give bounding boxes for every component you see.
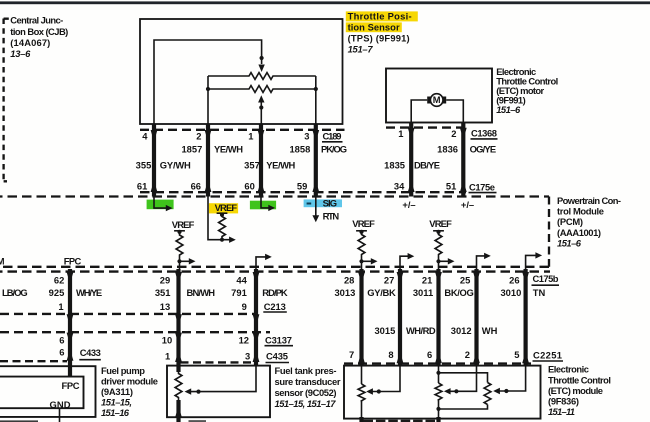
svg-text:44: 44 <box>236 274 247 285</box>
TPS resistor element lower <box>208 86 316 93</box>
wire 791 RD/PK 44 to sensor <box>254 269 258 366</box>
svg-text:Throttle Posi-: Throttle Posi- <box>348 10 412 21</box>
svg-text:Electronic: Electronic <box>548 364 589 375</box>
node pin 21 branch <box>436 259 440 263</box>
svg-text:4: 4 <box>142 130 148 141</box>
svg-text:(TPS) (9F991): (TPS) (9F991) <box>348 33 410 44</box>
svg-text:66: 66 <box>191 181 201 192</box>
svg-text:1: 1 <box>58 301 63 312</box>
wire motor lead right <box>446 100 463 123</box>
wire 3011 WH/RD 21 to pin6 <box>436 269 440 366</box>
highlight yellow TPS label line1 <box>346 11 418 21</box>
svg-text:1835: 1835 <box>384 159 405 170</box>
svg-text:(9F836): (9F836) <box>548 396 579 407</box>
svg-text:Powertrain Con-: Powertrain Con- <box>557 195 621 206</box>
PCM boundary top dashed <box>0 195 549 197</box>
ETC pot1 feed from pin 7 <box>361 366 363 384</box>
PCM module label <box>557 195 621 249</box>
ETC motor label <box>496 66 558 115</box>
TPS sensor box <box>140 19 343 124</box>
node resistor right <box>314 87 318 91</box>
svg-text:60: 60 <box>244 181 254 192</box>
svg-text:1: 1 <box>165 350 170 361</box>
svg-text:RTN: RTN <box>323 210 340 221</box>
svg-text:2: 2 <box>196 130 201 141</box>
svg-text:VREF: VREF <box>429 218 452 229</box>
svg-text:M: M <box>433 94 441 105</box>
wire 1835 DB/YE motor1 to 34 <box>409 123 413 197</box>
wire 44 internal arrow <box>256 257 267 269</box>
node TPS wiper junction <box>260 56 264 60</box>
connector C435 dashed line <box>181 361 258 363</box>
ETC module label <box>548 364 611 418</box>
ETC pin6 node <box>438 366 440 383</box>
svg-text:GY/WH: GY/WH <box>160 159 191 170</box>
connector pin flares C175e <box>151 187 467 192</box>
connector C189 dashed line <box>140 129 345 131</box>
connector C3137 dashed line <box>0 331 270 333</box>
svg-text:C189: C189 <box>323 131 342 142</box>
TPS label <box>348 10 412 54</box>
svg-text:61: 61 <box>137 181 147 192</box>
svg-text:tion Box (CJB): tion Box (CJB) <box>10 26 68 37</box>
svg-text:9: 9 <box>242 301 247 312</box>
svg-text:+/–: +/– <box>402 199 415 210</box>
svg-text:151–6: 151–6 <box>496 104 521 115</box>
svg-text:Throttle Control: Throttle Control <box>548 374 611 385</box>
node pin 29 branch <box>177 259 181 263</box>
svg-text:6: 6 <box>59 347 64 358</box>
svg-text:3010: 3010 <box>500 287 521 298</box>
svg-text:151–16: 151–16 <box>101 407 130 418</box>
resistor pin 66 <box>219 215 226 240</box>
VREF supply bar pin 66 <box>217 212 228 214</box>
svg-text:FPC: FPC <box>62 380 80 391</box>
highlight yellow TPS label line2 <box>346 22 402 32</box>
connector pin flares C3137 <box>67 333 260 338</box>
svg-text:12: 12 <box>239 335 249 346</box>
svg-text:791: 791 <box>231 287 247 298</box>
svg-text:C2251: C2251 <box>533 350 562 361</box>
svg-text:3013: 3013 <box>334 287 355 298</box>
fuel pump module label <box>101 365 158 418</box>
connector C175e dashed line <box>140 191 466 193</box>
svg-text:sensor (9C052): sensor (9C052) <box>275 387 337 398</box>
connector C213 dashed line <box>0 313 258 315</box>
svg-text:3: 3 <box>245 350 250 361</box>
svg-text:C175b: C175b <box>533 273 559 284</box>
fuel pump driver module inner box <box>0 377 84 409</box>
fuel tank pressure transducer box <box>167 366 270 418</box>
svg-text:1: 1 <box>248 130 253 141</box>
svg-text:C435: C435 <box>266 351 288 362</box>
node pin1 riser <box>259 105 263 109</box>
wire 1857 YE/WH pin2 to 66 <box>206 124 210 197</box>
svg-text:C213: C213 <box>264 301 286 312</box>
svg-text:29: 29 <box>160 274 170 285</box>
wire 925 WH/YE 62 to FPC <box>68 269 72 377</box>
wire TPS pin2 riser <box>207 76 209 124</box>
svg-text:1836: 1836 <box>437 143 458 154</box>
resistor pin 29 <box>176 232 183 269</box>
fuel tank pot wiper <box>185 388 192 394</box>
svg-text:6: 6 <box>59 335 64 346</box>
wire 355 GY/WH pin4 to 61 <box>152 124 156 197</box>
VREF supply bar pin 21 <box>433 230 444 232</box>
connector pin flares C213 <box>67 314 260 319</box>
svg-text:151–15,: 151–15, <box>101 396 132 407</box>
svg-text:34: 34 <box>394 181 405 192</box>
top page border <box>0 1 650 4</box>
wire 1836 OG/YE motor2 to 51 <box>461 123 465 197</box>
svg-text:WH/RD: WH/RD <box>406 325 436 336</box>
wire 26 internal arrow <box>526 255 537 269</box>
svg-text:GND: GND <box>50 399 71 410</box>
svg-text:DB/YE: DB/YE <box>414 159 440 170</box>
svg-text:1858: 1858 <box>289 143 310 154</box>
svg-text:RD/PK: RD/PK <box>262 287 288 298</box>
svg-text:GY/BK: GY/BK <box>367 287 396 298</box>
svg-text:Fuel pump: Fuel pump <box>101 365 145 376</box>
svg-text:OG/YE: OG/YE <box>470 143 497 154</box>
wire 25 internal arrow <box>477 256 486 269</box>
wire 3012 BK/OG 25 to pin2 <box>474 269 478 366</box>
highlight green wire 60 <box>250 201 276 210</box>
svg-text:TN: TN <box>533 287 546 298</box>
connector C433 dashed line <box>0 360 67 362</box>
motor brush tab right <box>443 97 446 104</box>
svg-text:28: 28 <box>344 274 354 285</box>
wire pin6 to pot3 top <box>439 373 488 383</box>
svg-text:+/–: +/– <box>461 199 474 210</box>
connector C2251 dashed line <box>344 362 531 364</box>
wire ETC pot1 ground lead <box>361 400 363 419</box>
central junction box CJB dashed boundary <box>2 19 4 182</box>
svg-text:2: 2 <box>451 128 456 139</box>
svg-text:VREF: VREF <box>215 202 238 213</box>
svg-text:C433: C433 <box>80 347 101 358</box>
svg-text:6: 6 <box>427 349 432 360</box>
VREF supply bar pin 29 <box>174 230 185 232</box>
TPS internal wiper feed wire (pin 4 to top wiper) <box>154 40 262 124</box>
svg-text:Central Junc-: Central Junc- <box>10 15 63 26</box>
ETC motor box <box>386 69 492 123</box>
wire 61 internal arrow <box>154 197 167 209</box>
svg-text:YE/WH: YE/WH <box>266 159 295 170</box>
wire 59 SIG/RTN arrow down <box>315 197 317 217</box>
fuel tank sensor label <box>275 365 341 409</box>
svg-text:trol Module: trol Module <box>557 206 604 217</box>
svg-text:355: 355 <box>136 159 152 170</box>
svg-text:3012: 3012 <box>451 325 472 336</box>
svg-text:Fuel tank pres-: Fuel tank pres- <box>275 365 337 376</box>
svg-text:26: 26 <box>509 274 519 285</box>
resistor ETC pot2 <box>435 383 442 400</box>
svg-text:25: 25 <box>460 274 470 285</box>
svg-text:13–6: 13–6 <box>10 48 31 59</box>
ETC pot1 wiper from pin 8 <box>366 388 373 394</box>
wire 3015 WH/RD 27 to pin8 <box>398 269 402 366</box>
PCM boundary bottom dashed <box>0 266 549 268</box>
svg-text:(9A311): (9A311) <box>101 386 133 397</box>
svg-text:VREF: VREF <box>172 219 195 230</box>
wire fuel tank sensor ground lead <box>176 400 180 422</box>
SIG dash mark <box>307 203 312 205</box>
svg-text:C1368: C1368 <box>471 128 497 139</box>
ETC pot3 wiper from pin 5 <box>500 366 526 391</box>
ETC pot2 wiper from pin 2 <box>450 366 476 392</box>
svg-text:LB/OG: LB/OG <box>2 287 28 298</box>
svg-text:21: 21 <box>422 274 432 285</box>
svg-text:YE/WH: YE/WH <box>214 143 243 154</box>
wire 27 internal arrow <box>400 256 409 269</box>
svg-text:3011: 3011 <box>413 287 433 298</box>
connector pin flares C433 C435 <box>67 356 260 362</box>
svg-text:27: 27 <box>384 274 394 285</box>
svg-text:151–11: 151–11 <box>548 406 575 417</box>
svg-text:(AAA1001): (AAA1001) <box>557 227 601 238</box>
VREF supply bar pin 28 <box>356 230 367 232</box>
svg-text:FPC: FPC <box>64 255 82 266</box>
svg-text:62: 62 <box>54 274 64 285</box>
wire 1858 PK/OG pin3 to 59 <box>314 124 318 197</box>
connector pin flares C2251 <box>358 358 529 363</box>
svg-text:151–6: 151–6 <box>557 238 582 249</box>
TPS resistor element upper <box>208 73 316 80</box>
wire 3010 TN 26 to pin5 <box>523 269 527 366</box>
svg-text:10: 10 <box>162 335 172 346</box>
motor M1 symbol <box>430 94 443 107</box>
wire 357 YE/WH pin1 to 60 <box>259 124 263 197</box>
svg-text:(14A067): (14A067) <box>10 37 50 48</box>
svg-text:59: 59 <box>297 181 307 192</box>
svg-text:8: 8 <box>388 349 393 360</box>
CJB label <box>10 15 68 60</box>
svg-text:tion Sensor: tion Sensor <box>348 21 400 32</box>
svg-text:WH: WH <box>482 325 498 336</box>
svg-text:BN/WH: BN/WH <box>187 287 216 298</box>
resistor ETC pot1 <box>358 384 365 401</box>
wire TPS pin3 riser <box>315 76 317 124</box>
resistor ETC pot3 <box>484 383 491 405</box>
svg-text:driver module: driver module <box>101 375 158 386</box>
svg-text:C175e: C175e <box>469 181 495 192</box>
connector C175b dashed line <box>0 270 550 272</box>
bottom shield hatch bar <box>364 420 436 422</box>
fuel tank potentiometer resistor <box>175 372 182 400</box>
svg-text:(PCM): (PCM) <box>557 216 583 227</box>
wire 60 internal arrow <box>261 197 270 208</box>
highlight yellow VREF pin 66 <box>209 203 238 213</box>
connector C420 fragment <box>189 420 207 422</box>
connector pin flares C189/C1368 <box>151 128 467 135</box>
wire ETC pot2 ground lead <box>438 409 440 419</box>
svg-text:7: 7 <box>349 349 354 360</box>
svg-text:3: 3 <box>304 130 309 141</box>
wire TPS pin1 riser <box>260 102 262 124</box>
resistor pin 28 <box>358 232 365 269</box>
wire 351 BN/WH 29 to sensor <box>176 269 180 372</box>
wire GND lead <box>59 408 61 422</box>
svg-text:3015: 3015 <box>374 325 395 336</box>
svg-text:SIG: SIG <box>323 198 338 209</box>
svg-text:C3137: C3137 <box>265 335 292 346</box>
wire 3013 GY/BK 28 to pin7 <box>359 269 363 366</box>
TPS wiper arrow down <box>258 65 264 73</box>
node pin 28 branch <box>359 259 363 263</box>
svg-text:351: 351 <box>155 287 171 298</box>
svg-text:357: 357 <box>244 159 260 170</box>
bottom left shield bar <box>0 420 38 422</box>
TPS lower wiper arrow up <box>258 95 264 102</box>
svg-text:13: 13 <box>160 301 170 312</box>
svg-text:PK/OG: PK/OG <box>321 143 347 154</box>
svg-text:2: 2 <box>465 349 470 360</box>
connector C1368 dashed line <box>386 126 467 128</box>
wire 66 internal path <box>208 197 230 240</box>
resistor pin 21 <box>435 232 442 269</box>
connector pin flares C175b <box>67 272 529 277</box>
svg-text:151–7: 151–7 <box>348 44 374 55</box>
svg-text:BK/OG: BK/OG <box>444 287 473 298</box>
svg-text:(ETC) module: (ETC) module <box>548 385 603 396</box>
svg-text:VREF: VREF <box>352 218 375 229</box>
highlight blue SIG pin 59 <box>304 199 342 207</box>
highlight green wire 61 <box>147 200 174 210</box>
svg-text:151–15, 151–17: 151–15, 151–17 <box>275 398 337 409</box>
svg-text:1857: 1857 <box>181 143 202 154</box>
svg-text:1: 1 <box>398 128 403 139</box>
svg-text:5: 5 <box>514 349 519 360</box>
wire motor lead left <box>411 100 427 123</box>
svg-text:WH/YE: WH/YE <box>76 287 102 298</box>
ETC module box <box>344 366 541 419</box>
PCM boundary right dashed <box>548 197 550 267</box>
svg-text:51: 51 <box>446 181 456 192</box>
svg-text:sure transducer: sure transducer <box>275 376 341 387</box>
svg-text:M: M <box>0 255 5 266</box>
wire pot3 bottom to pot2 bottom <box>439 399 488 409</box>
connector flare fuel tank bottom <box>175 413 182 418</box>
motor brush tab left <box>427 97 430 104</box>
node resistor left <box>206 87 210 91</box>
svg-text:925: 925 <box>49 287 65 298</box>
fuel pump driver module outer box <box>0 366 96 417</box>
